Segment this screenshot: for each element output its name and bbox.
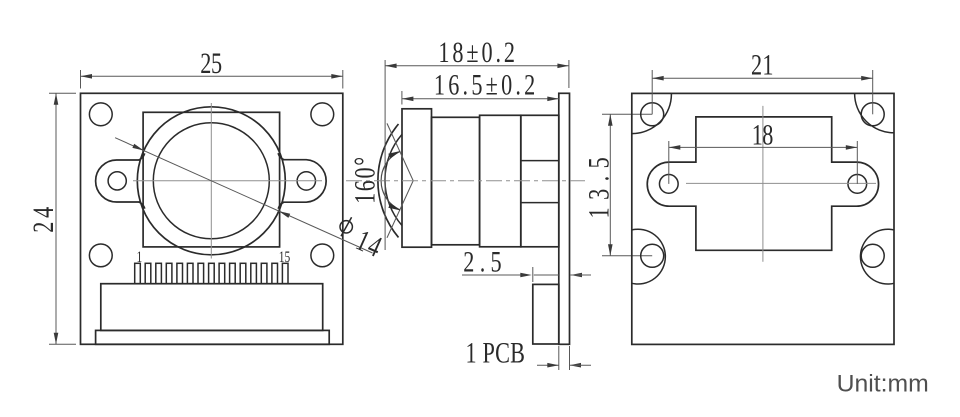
- front view lens barrel circle (diameter 14): [137, 107, 285, 255]
- dimension 18 +/-0.2 overall length: [384, 60, 386, 250]
- 160 deg angular dimension arc with arrows: [381, 152, 400, 210]
- diameter 14 text: [340, 221, 352, 233]
- side view lens barrel: [432, 117, 480, 245]
- back view left ear hole: [659, 175, 678, 194]
- side view lens inner dome arc: [385, 135, 402, 226]
- front view lens holder square: [143, 112, 280, 247]
- front view mounting hole bottom-left: [89, 244, 112, 267]
- dimension 2.5 connector offset: [532, 267, 534, 282]
- dimension 24 (height): [49, 92, 76, 94]
- side view lens holder front: [480, 115, 521, 247]
- dimension 21 hole spacing horizontal: [651, 70, 653, 114]
- svg-text:1 PCB: 1 PCB: [466, 335, 525, 369]
- svg-text:2.5: 2.5: [463, 244, 501, 278]
- back view mounting hole top-left with counterbore: [641, 103, 664, 126]
- back view mounting hole bottom-right with counterbore: [861, 244, 884, 267]
- dimension 13.5 hole spacing vertical: [602, 113, 652, 115]
- connector pins x15: [135, 263, 141, 283]
- dimension 1 PCB thickness: [558, 346, 560, 370]
- back view PCB outline: [632, 93, 894, 344]
- diameter 14 dimension leader line with arrows: [115, 138, 372, 253]
- side view lens holder back: [521, 115, 559, 247]
- back view mounting hole bottom-left with counterbore: [641, 244, 664, 267]
- back view right ear hole: [848, 175, 867, 194]
- front view mounting hole top-right: [311, 103, 334, 126]
- front view: camera module PCB outline 25x24: [81, 93, 343, 344]
- side view PCB (1mm): [559, 93, 570, 344]
- back view center lines: [762, 106, 764, 262]
- ear-to-barrel fillets: [139, 153, 145, 160]
- svg-text:25: 25: [200, 46, 222, 80]
- svg-text:Unit:mm: Unit:mm: [837, 371, 929, 398]
- front view center lines: [210, 103, 212, 259]
- front view left mounting ear with hole: [96, 160, 141, 202]
- back view mounting hole top-right with counterbore: [861, 103, 884, 126]
- front view right mounting ear with hole: [282, 160, 326, 203]
- connector body: [101, 284, 323, 331]
- side view connector: [533, 284, 559, 344]
- side view lens outer dome arc: [378, 124, 399, 237]
- side view lens front plate: [402, 109, 432, 247]
- field of view rays 160 deg: [387, 123, 413, 180]
- side view optical axis center line: [346, 180, 585, 182]
- front view mounting hole top-left: [89, 103, 112, 126]
- front view lens inner circle: [153, 123, 269, 239]
- connector base plate: [96, 330, 330, 344]
- dimension 16.5 +/-0.2: [401, 91, 403, 105]
- dimension 25 (width): [80, 70, 82, 89]
- dimension 18 ear hole spacing: [668, 141, 670, 184]
- svg-text:21: 21: [751, 47, 773, 81]
- back view lens holder footprint cutout: [647, 117, 878, 250]
- front view mounting hole bottom-right: [311, 244, 334, 267]
- svg-text:18: 18: [752, 117, 774, 151]
